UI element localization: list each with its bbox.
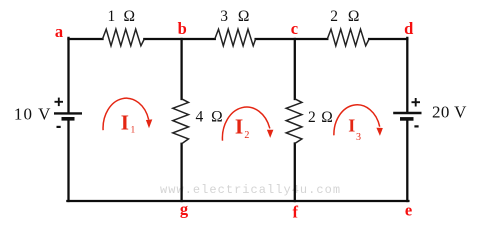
wire branch R4 down to node g [180,144,182,201]
loop arrow I2 arc [222,107,269,141]
svg-text:I: I [348,115,355,135]
svg-text:2 Ω: 2 Ω [308,109,334,126]
svg-text:4 Ω: 4 Ω [196,109,225,126]
resistor R4 4 ohm vertical zigzag [173,99,189,144]
wire top R1 to R2 through node b [144,38,215,40]
resistor R2 3 ohm zigzag [215,29,256,46]
svg-text:I: I [121,110,129,134]
battery V1 10V short negative plate [62,117,75,121]
battery V2 plus sign [412,98,421,107]
wire battery V1 to bottom left corner [67,121,69,202]
svg-text:1 Ω: 1 Ω [108,8,138,25]
battery V2 20V short negative plate [400,117,414,121]
svg-text:a: a [55,22,63,41]
loop arrow I2 arrowhead [267,130,274,138]
wire top R3 to d [369,38,407,40]
resistor R1 1 ohm zigzag [103,29,145,46]
loop arrow I3 arrowhead [376,128,383,136]
svg-text:3: 3 [356,132,361,143]
svg-text:2 Ω: 2 Ω [330,8,362,25]
wire bottom g f e [67,200,408,202]
svg-text:g: g [180,200,189,219]
wire battery V2 to bottom right corner e [406,121,408,201]
loop arrow I1 arc [103,98,149,130]
battery V2 minus sign [414,125,418,127]
wire top a to R1 [69,38,103,40]
battery V1 10V long positive plate [54,112,82,114]
svg-text:I: I [235,114,243,138]
svg-text:10 V: 10 V [14,104,52,123]
svg-text:c: c [291,19,298,38]
loop arrow I1 arrowhead [146,119,152,128]
loop arrow I3 arc [334,105,380,135]
svg-text:b: b [178,19,187,38]
svg-text:e: e [405,200,412,219]
battery V1 plus sign [55,98,64,107]
wire branch R5 down to node f [294,144,296,202]
svg-text:d: d [404,19,413,38]
wire top R2 to R3 through node c [256,38,328,40]
wire branch node b down to R4 [180,39,182,99]
wire branch node c down to R5 [294,39,296,99]
resistor R3 2 ohm zigzag [327,29,369,46]
battery V1 minus sign [57,126,61,128]
svg-text:3 Ω: 3 Ω [220,8,252,25]
wire left side a down to battery V1 [67,38,69,112]
battery V2 20V long positive plate [393,112,421,114]
svg-text:20 V: 20 V [432,102,467,121]
svg-text:f: f [293,202,299,221]
resistor R5 2 ohm vertical zigzag [286,99,302,144]
svg-text:www.electrically4u.com: www.electrically4u.com [160,183,341,197]
svg-text:1: 1 [131,125,136,135]
svg-text:2: 2 [244,130,249,141]
wire right side d down to battery V2 [406,38,408,112]
